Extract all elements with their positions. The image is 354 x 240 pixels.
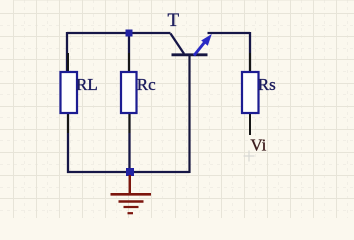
ground bar 3 <box>124 206 139 208</box>
junction bottom (Rc / bottom wire) <box>126 168 134 176</box>
junction top (Rc / top wire) <box>126 30 133 37</box>
wire top-right horizontal <box>208 32 251 34</box>
wire RL bottom vertical <box>67 113 69 173</box>
wire bottom horizontal <box>67 171 190 173</box>
resistor RL <box>61 72 78 113</box>
wire left vertical <box>66 32 68 72</box>
svg-text:T: T <box>168 10 180 31</box>
pin Rs top <box>249 53 251 72</box>
resistor Rs <box>242 72 259 113</box>
pin Rc top <box>128 53 130 72</box>
wire transistor base vertical <box>188 55 190 173</box>
ground bar 4 <box>128 212 134 214</box>
transistor T emitter line <box>194 41 206 56</box>
transistor T emitter arrowhead <box>201 34 212 46</box>
svg-text:Vi: Vi <box>250 136 266 155</box>
pin Rs bottom <box>249 113 251 135</box>
resistor Rc <box>121 72 137 113</box>
wire Rc bottom vertical <box>128 113 130 172</box>
pin RL bottom <box>67 113 69 133</box>
transistor T collector line <box>171 34 185 54</box>
pin Rc bottom <box>129 113 131 133</box>
transistor T base bar <box>172 53 208 56</box>
pin RL top <box>67 53 69 72</box>
wire Rc top vertical <box>128 33 130 72</box>
svg-text:Rs: Rs <box>258 75 276 94</box>
wire top-left horizontal <box>67 32 171 34</box>
ground stub <box>129 175 131 194</box>
ground bar 2 <box>119 200 144 202</box>
no-ERC cross marker <box>244 151 255 162</box>
wire Rs vertical <box>249 32 251 72</box>
ground bar 1 <box>111 193 152 196</box>
svg-text:Rc: Rc <box>137 75 156 94</box>
svg-text:RL: RL <box>76 75 98 94</box>
